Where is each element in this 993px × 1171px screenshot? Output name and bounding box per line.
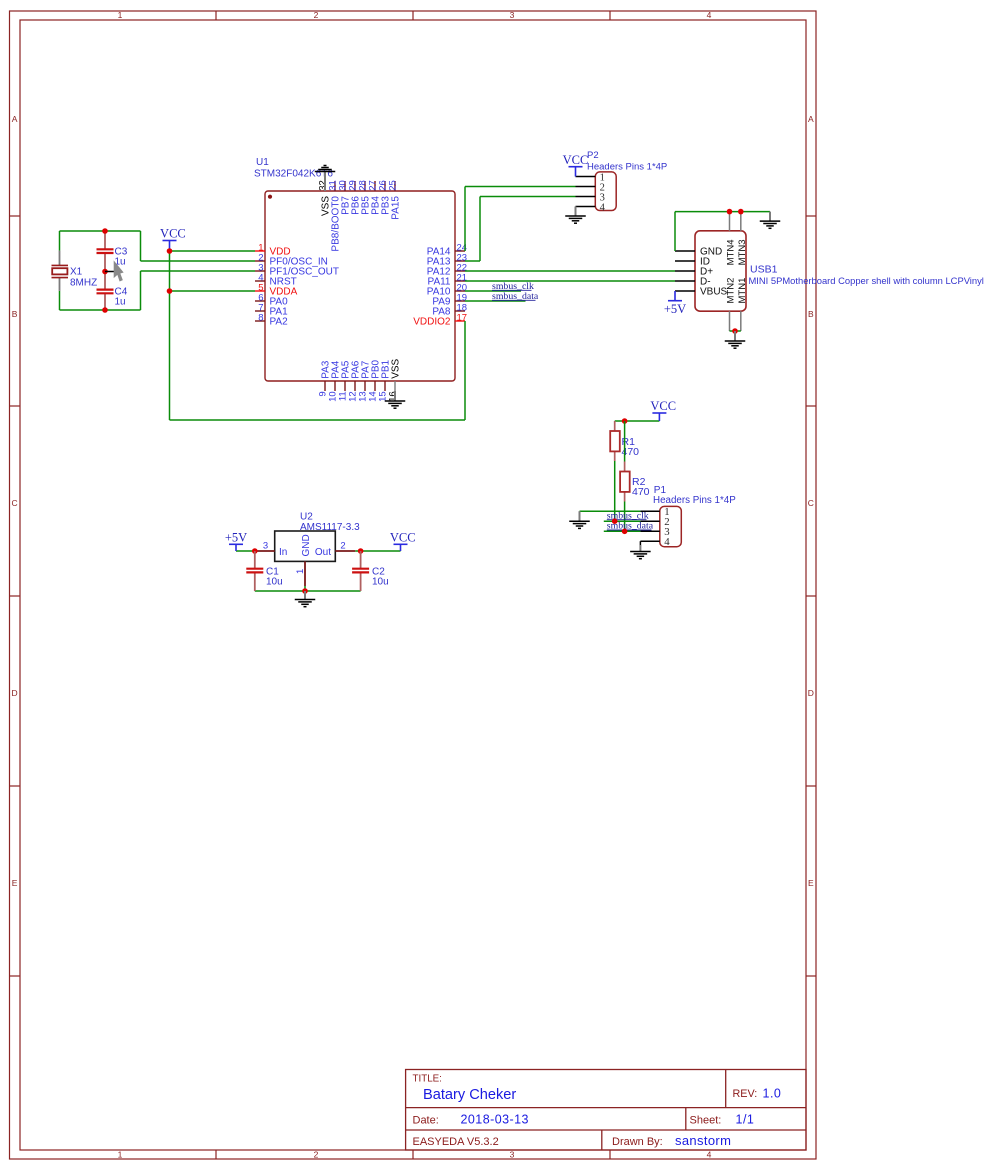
frame row tick left [10,975,21,977]
svg-text:VCC: VCC [650,399,676,413]
svg-text:U2: U2 [300,512,313,523]
wire to U1 PF0/OSC_IN pin 2 [141,260,256,262]
U1 pin 29 stub (PB6) [354,181,356,191]
U1 body STM32F042K6T6 [265,191,455,381]
P1 pin 1 stub [640,510,659,512]
frame row tick right [806,785,816,787]
wire R1 bottom to smbus_clk [614,461,616,521]
U1 pin 1 stub (VDD) [255,250,265,252]
svg-text:USB1: USB1 [750,264,778,276]
net label underline smbus_clk P1 [607,519,647,521]
wire MTN2-MTN1 join [730,330,741,332]
capacitor C3 1u [97,231,114,272]
wire U2 Out to VCC [355,550,400,552]
U1 pin 32 stub (VSS) [324,181,326,191]
wire P1 pin1 to ground [580,510,641,512]
USB1 pin D+ stub [675,270,695,272]
frame column tick top [609,11,611,20]
U1 pin 15 stub (PB1) [384,381,386,391]
svg-text:1u: 1u [115,297,126,308]
frame row tick left [10,215,21,217]
junction C1/+5V [252,548,258,554]
svg-text:D: D [12,688,18,698]
svg-text:3: 3 [510,1150,515,1160]
wire USB GND to shield ground [675,211,770,213]
svg-text:C: C [808,498,814,508]
U1 pin 10 stub (PA4) [334,381,336,391]
wire VCC to R2 top [624,421,626,462]
svg-text:GND: GND [301,534,312,556]
svg-text:EASYEDA V5.3.2: EASYEDA V5.3.2 [413,1136,499,1148]
frame column tick bottom [412,1150,414,1159]
P2 pin 4 stub [576,206,596,208]
net label underline smbus_data P1 [607,529,652,531]
power flag +5V at USB VBUS [664,291,686,316]
U1 pin 1 marker dot [268,195,272,199]
wire PA11 to USB D- [465,280,675,282]
P1 pin 2 stub [640,520,659,522]
wire P2 pin2 to PA14 vertical [464,187,466,252]
wire to OSC_OUT vertical [140,271,142,310]
frame row tick left [10,785,21,787]
svg-text:Drawn By:: Drawn By: [612,1136,663,1148]
wire VCC to U1 VDDA pin 5 [170,290,256,292]
svg-text:B: B [808,309,814,319]
svg-text:C: C [12,498,18,508]
junction R1/smbus_clk [612,518,618,524]
U1 pin 19 stub (PA9) [455,300,465,302]
svg-text:B: B [12,309,18,319]
wire X1 bottom [59,291,61,310]
svg-text:2: 2 [314,10,319,20]
ground at U1 pin 16 VSS [385,391,406,408]
U1 pin 12 stub (PA6) [354,381,356,391]
U1 pin 30 stub (PB7) [344,181,346,191]
svg-text:Headers Pins 1*4P: Headers Pins 1*4P [587,161,667,172]
svg-text:E: E [808,878,814,888]
svg-text:VCC: VCC [563,153,589,167]
U1 pin 25 stub (PA15) [394,181,396,191]
wire smbus_data to P1 pin3 [604,530,641,532]
power flag VCC at U2 output [390,531,416,552]
svg-text:8: 8 [258,313,263,324]
U1 pin 2 stub (PF0/OSC_IN) [255,260,265,262]
capacitor C4 1u [97,272,114,311]
junction C2/Out [358,548,364,554]
U1 pin 8 stub (PA2) [255,320,265,322]
wire X1 top [59,231,61,251]
junction MTN1/MTN2 ground [732,328,738,334]
svg-text:1.0: 1.0 [763,1087,782,1101]
frame row tick right [806,595,816,597]
svg-text:REV:: REV: [733,1088,758,1100]
svg-text:2: 2 [340,541,345,552]
frame row tick right [806,975,816,977]
frame row tick left [10,405,21,407]
U1 pin 3 stub (PF1/OSC_OUT) [255,270,265,272]
wire P1 pin4 down [639,541,641,545]
power flag VCC near U1 [160,227,186,251]
svg-text:10u: 10u [266,577,283,588]
capacitor C2 10u [352,551,369,591]
wire P2 pin3 to PA13 vertical [479,197,481,262]
svg-text:3: 3 [263,541,268,552]
schematic sheet border inner frame [20,20,806,1150]
wire +5V to U2 In [236,550,255,552]
frame column tick top [215,11,217,20]
power flag +5V at U2 input [225,531,247,552]
wire PA12 to USB D+ [465,270,675,272]
USB1 pin MTN4 stub [729,212,731,231]
wire to U1 PF1/OSC_OUT pin 3 [141,270,256,272]
net label underline smbus_clk [492,289,532,291]
svg-text:MTN2: MTN2 [726,278,737,304]
resistor R1 470 [610,421,620,461]
USB1 pin MTN1 stub [740,311,742,331]
junction VCC/VDDA [167,288,173,294]
svg-text:AMS1117-3.3: AMS1117-3.3 [300,522,360,533]
svg-text:2018-03-13: 2018-03-13 [461,1113,529,1127]
svg-text:VBUS: VBUS [700,287,728,298]
svg-text:+5V: +5V [664,302,686,316]
junction C3 top [102,228,108,234]
junction MTN3 to GND wire [738,209,744,215]
svg-text:2: 2 [314,1150,319,1160]
U2 pin 2 Out stub [335,550,355,552]
ground at P1 pin 1 [569,511,590,528]
svg-text:In: In [279,547,287,558]
U1 pin 6 stub (PA0) [255,300,265,302]
svg-text:Date:: Date: [413,1115,439,1127]
resistor R2 470 [620,462,630,502]
wire smbus_data at PA9 [465,300,526,302]
U1 pin 22 stub (PA12) [455,270,465,272]
svg-text:A: A [12,114,18,124]
svg-text:VSS: VSS [391,358,402,378]
svg-text:Headers Pins 1*4P: Headers Pins 1*4P [653,495,736,506]
svg-text:MTN4: MTN4 [726,240,737,266]
frame row tick left [10,595,21,597]
U1 pin 7 stub (PA1) [255,310,265,312]
junction ground rail [302,588,308,594]
svg-text:PA15: PA15 [391,196,402,220]
U2 pin 3 In stub [255,550,275,552]
ground at P2 pin 4 [565,207,586,224]
svg-text:1: 1 [118,10,123,20]
header P1 Headers Pins 1*4P [660,506,682,546]
P1 pin 3 stub [640,530,659,532]
svg-text:1: 1 [295,569,306,574]
svg-text:Sheet:: Sheet: [690,1115,722,1127]
U1 pin 26 stub (PB3) [384,181,386,191]
svg-text:U1: U1 [256,157,269,168]
svg-text:MTN3: MTN3 [737,240,748,266]
svg-text:1/1: 1/1 [736,1113,755,1127]
svg-text:VCC: VCC [160,227,186,241]
crystal X1 8MHZ [52,251,69,291]
connector USB1 MINI 5P [695,231,746,311]
svg-text:4: 4 [707,1150,712,1160]
wire P2 pin3 to PA13 horizontal [480,196,576,198]
U1 pin 31 stub (PB8/BOOT0) [334,181,336,191]
U1 pin 20 stub (PA10) [455,290,465,292]
P2 pin 3 stub [576,196,596,198]
wire VCC rail horizontal below U1 [170,419,466,421]
wire VCC to U1 VDD pin 1 [170,250,256,252]
svg-text:470: 470 [632,486,650,498]
U1 pin 27 stub (PB4) [374,181,376,191]
svg-text:25: 25 [388,180,399,191]
P1 pin 4 stub [640,540,659,542]
svg-text:VDDIO2: VDDIO2 [413,317,451,328]
USB1 pin MTN2 stub [729,311,731,331]
wire crystal top [60,230,141,232]
svg-text:A: A [808,114,814,124]
frame row tick right [806,215,816,217]
svg-text:3: 3 [510,10,515,20]
frame column tick top [412,11,414,20]
svg-text:D: D [808,688,814,698]
wire VCC to U1 VDDIO2 pin 17 [464,321,466,420]
svg-text:Batary Cheker: Batary Cheker [423,1087,516,1103]
U1 pin 24 stub (PA14) [455,250,465,252]
svg-text:+5V: +5V [225,531,247,545]
wire USB GND up [674,212,676,251]
schematic sheet border outer frame [10,11,817,1159]
junction R2/smbus_data [622,529,628,535]
frame column tick bottom [215,1150,217,1159]
wire VCC rail vertical [169,251,171,420]
U1 pin 4 stub (NRST) [255,280,265,282]
wire U2 GND down [304,586,306,591]
P2 pin 2 stub [576,186,596,188]
ground at U1 pin 32 VSS (inverted) [315,166,336,192]
capacitor C1 10u [246,551,263,591]
U1 pin 21 stub (PA11) [455,280,465,282]
junction MTN4 to GND wire [727,209,733,215]
svg-text:Out: Out [315,547,331,558]
wire crystal bottom [60,309,141,311]
power flag VCC at R1/R2 [650,399,676,421]
ground at USB shield top [760,212,781,229]
USB1 pin MTN3 stub [740,212,742,231]
net label underline smbus_data [492,299,536,301]
U1 pin 14 stub (PB0) [374,381,376,391]
junction VCC/VDD [167,248,173,254]
wire VCC to R1/R2 top [615,420,660,422]
svg-text:4: 4 [707,10,712,20]
wire PA13 stub extension [465,260,480,262]
header P2 Headers Pins 1*4P [595,172,616,211]
svg-text:4: 4 [600,202,606,213]
frame row tick right [806,405,816,407]
svg-text:MINI 5PMotherboard Copper shel: MINI 5PMotherboard Copper shell with col… [749,275,984,286]
svg-text:TITLE:: TITLE: [413,1074,442,1085]
svg-text:4: 4 [664,536,670,548]
power flag VCC at P2 pin 1 [563,153,589,177]
USB1 pin ID stub [675,260,695,262]
wire to OSC_IN vertical [140,231,142,261]
U1 pin 17 stub (VDDIO2) [455,320,465,322]
wire R2 bottom to smbus_data [624,502,626,532]
svg-text:P2: P2 [587,150,599,161]
U1 pin 18 stub (PA8) [455,310,465,312]
USB1 pin VBUS stub [675,290,695,292]
wire smbus_clk at PA10 [465,290,521,292]
ground at P1 pin 4 [630,545,651,559]
U1 pin 28 stub (PB5) [364,181,366,191]
U1 pin 16 stub (VSS) [394,381,396,391]
svg-text:MTN1: MTN1 [737,278,748,304]
ground at U2 [295,591,316,607]
svg-text:1: 1 [118,1150,123,1160]
U1 pin 11 stub (PA5) [344,381,346,391]
svg-text:sanstorm: sanstorm [675,1133,731,1148]
mouse cursor arrow over ground symbol [114,262,123,281]
ground stub at C3/C4 midpoint [105,271,115,273]
svg-text:VCC: VCC [390,531,416,545]
junction R2 branch [622,418,628,424]
frame column tick bottom [609,1150,611,1159]
U1 pin 9 stub (PA3) [324,381,326,391]
ground at USB MTN bottom [725,331,746,348]
svg-text:PA2: PA2 [270,317,289,328]
svg-text:8MHZ: 8MHZ [70,278,97,289]
U2 pin 1 GND stub [304,561,306,586]
svg-text:X1: X1 [70,267,83,278]
wire U2 bottom ground rail [255,590,361,592]
wire P2 pin2 to PA14 horizontal [465,186,576,188]
wire smbus_clk to P1 pin2 [604,520,641,522]
P2 pin 1 stub [576,176,596,178]
U1 pin 13 stub (PA7) [364,381,366,391]
junction C3/C4 midpoint [102,269,108,275]
svg-text:E: E [12,878,18,888]
junction C4 bottom [102,307,108,313]
svg-text:10u: 10u [372,577,389,588]
title block [406,1070,806,1151]
USB1 pin D- stub [675,280,695,282]
regulator U2 AMS1117-3.3 [275,531,336,561]
USB1 pin GND stub [675,250,695,252]
U1 pin 5 stub (VDDA) [255,290,265,292]
U1 pin 23 stub (PA13) [455,260,465,262]
